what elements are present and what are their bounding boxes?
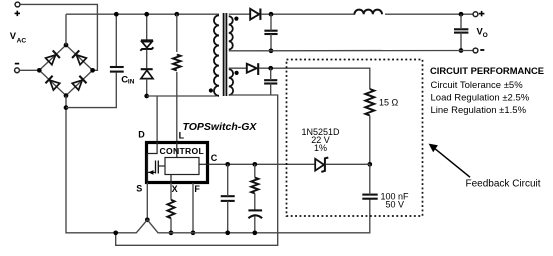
label 100 nF 50 V (381, 191, 410, 209)
junction dot F ground (191, 230, 196, 235)
wire F pin to ground rail (192, 183, 194, 233)
controller inner block (165, 158, 199, 175)
svg-text:F: F (194, 184, 200, 194)
bridge diode D3 (bottom-left edge) (45, 76, 60, 91)
transformer bias winding (229, 69, 233, 95)
bias winding phase dot (235, 71, 239, 75)
label CIN (121, 74, 134, 85)
drain wire (147, 95, 217, 97)
wire zener to node (326, 163, 370, 165)
svg-text:15 Ω: 15 Ω (379, 98, 399, 108)
label VAC (10, 30, 27, 44)
bias return wire (116, 95, 278, 245)
minus mark at AC input (15, 63, 19, 65)
junction dot output cap top (459, 12, 464, 17)
secondary filter capacitor C2 (264, 31, 277, 34)
bridge diode D2 (right-top edge) (72, 50, 87, 65)
svg-text:Feedback Circuit: Feedback Circuit (466, 178, 541, 189)
svg-text:D: D (138, 130, 145, 140)
wire output diode to node (261, 13, 355, 15)
S junction dot (145, 217, 150, 222)
label 15 ohm (379, 98, 399, 108)
bias capacitor C4 (264, 80, 277, 83)
feedback capacitor C7 100nF (362, 195, 377, 199)
junction dot X ground (169, 230, 174, 235)
circuit tolerance line (431, 80, 524, 91)
wire rail to clamp (146, 14, 148, 40)
secondary phase dot (234, 17, 238, 21)
primary phase dot (209, 88, 213, 92)
wire S pin down (146, 183, 148, 220)
wire L pin to control block (176, 142, 178, 158)
bias diode D7 (247, 63, 258, 75)
label Feedback Circuit (466, 178, 541, 189)
TOPSwitch-GX IC U1 box (147, 143, 208, 183)
clamp zener VR1 (140, 40, 153, 50)
svg-text:Load Regulation ±2.5%: Load Regulation ±2.5% (431, 93, 530, 104)
svg-text:CONTROL: CONTROL (160, 146, 205, 156)
junction dot sec filter cap top (269, 12, 274, 17)
Vo return rail (229, 50, 473, 52)
wire control block to X pin (170, 175, 172, 184)
circuit performance title (430, 65, 544, 76)
compensation resistor R3 (251, 178, 258, 194)
wire zener node to 100nF (369, 164, 371, 194)
svg-text:Circuit Tolerance ±5%: Circuit Tolerance ±5% (431, 80, 524, 91)
svg-text:X: X (172, 184, 178, 194)
svg-text:CIRCUIT PERFORMANCE: CIRCUIT PERFORMANCE (430, 65, 544, 76)
capacitor CIN (110, 67, 124, 72)
AC input + terminal (15, 2, 20, 7)
output capacitor C3 (454, 29, 468, 32)
transformer core (224, 13, 227, 96)
pin label F (194, 184, 200, 194)
svg-text:AC: AC (17, 37, 27, 44)
junction dot output cap bottom (459, 48, 464, 53)
transformer secondary winding (output) (229, 16, 233, 49)
junction dot below bridge (64, 105, 69, 110)
junction dot RC branch (252, 162, 257, 167)
Vo- terminal (473, 48, 478, 53)
label VO (477, 26, 488, 39)
wire between clamp diodes (146, 50, 148, 69)
wire bridge bottom to ground rail (66, 96, 116, 233)
zener VR2 1N5251D (315, 158, 328, 172)
current limit resistor R2 (167, 200, 174, 219)
wire output cap (460, 14, 462, 50)
wire rail to CIN (115, 14, 117, 66)
junction dot zener node (367, 162, 372, 167)
drain node junction dot (144, 94, 149, 99)
wire secondary top to output diode (229, 13, 250, 15)
junction dot RC ground (252, 230, 257, 235)
wire bias cap (270, 68, 272, 95)
pin label S (136, 183, 142, 193)
pin label D (138, 130, 145, 140)
junction dot ground left (113, 230, 118, 235)
primary ground rail (116, 199, 370, 233)
output inductor L1 (355, 10, 383, 15)
wire control cap (227, 164, 229, 233)
junction dot line-sense top (174, 12, 179, 17)
pin label X (172, 184, 178, 194)
wire inductor to Vo+ (385, 13, 473, 15)
C pin wire (209, 163, 315, 165)
wire X pin to resistor (170, 183, 172, 200)
wire drain to D pin (156, 96, 158, 142)
svg-text:Line Regulation ±1.5%: Line Regulation ±1.5% (431, 105, 527, 116)
wire from - terminal to bridge left corner (19, 69, 39, 71)
output diode D6 (250, 9, 260, 20)
junction dot sec cap bottom (269, 48, 274, 53)
wire clamp to drain node (146, 79, 148, 96)
wire RC bottom (254, 216, 256, 233)
svg-text:IN: IN (128, 79, 135, 86)
wire line-sense resistor to L pin (176, 72, 178, 142)
Vo+ terminal (473, 12, 478, 17)
label CONTROL (160, 146, 205, 156)
minus mark at Vo (480, 49, 484, 51)
wire RC branch top (254, 164, 256, 177)
wire bias winding to bias diode (229, 67, 247, 69)
junction dot clamp top (144, 12, 149, 17)
wire bias diode to feedback (259, 68, 370, 89)
pin label L (179, 131, 185, 141)
HV+ rail (66, 13, 219, 15)
line regulation line (431, 105, 527, 116)
junction dot control cap (225, 162, 230, 167)
svg-text:S: S (136, 183, 142, 193)
wire 15ohm to zener node (369, 116, 371, 165)
junction dot control cap ground (225, 230, 230, 235)
wire resistor to ground rail (170, 218, 172, 233)
wire CIN bottom to bridge node (66, 73, 116, 108)
load regulation line (431, 93, 530, 104)
bridge diode D1 (left-top edge) (45, 50, 60, 65)
label TOPSwitch-GX (183, 121, 258, 133)
svg-text:50 V: 50 V (386, 200, 405, 210)
junction dot CIN top (114, 12, 119, 17)
clamp blocking diode D5 (141, 69, 153, 78)
wire rail to line-sense resistor (176, 14, 178, 52)
feedback arrow (429, 144, 470, 178)
bridge diamond wires (39, 45, 92, 96)
svg-text:L: L (179, 131, 185, 141)
svg-text:C: C (211, 153, 218, 163)
wire RC mid (254, 193, 256, 210)
AC input - terminal (15, 68, 20, 73)
label 1N5251D 22V 1% (301, 127, 340, 153)
compensation capacitor C6 (polarized) (248, 210, 262, 218)
wire sec cap (270, 14, 272, 51)
svg-text:TOPSwitch-GX: TOPSwitch-GX (183, 121, 258, 133)
internal MOSFET Q1 (147, 142, 165, 183)
plus mark at AC input (15, 11, 20, 16)
pin label C (211, 153, 218, 163)
svg-text:O: O (483, 32, 488, 39)
bridge corner junction dots (37, 43, 95, 98)
transformer primary winding (214, 15, 219, 96)
feedback resistor R4 15 ohm (365, 89, 374, 116)
junction dot bias cap top (268, 66, 273, 71)
bridge diode D4 (bottom-right edge) (72, 76, 87, 91)
feedback circuit dashed box (287, 60, 423, 217)
wire from + terminal to bridge right corner (20, 4, 98, 70)
wire bridge top corner to HV rail (65, 14, 67, 45)
svg-text:1%: 1% (314, 143, 327, 153)
control capacitor C5 (221, 196, 235, 201)
line sense resistor R1 (173, 55, 181, 71)
wire control block to C pin (199, 163, 209, 165)
plus mark at Vo (479, 11, 485, 16)
